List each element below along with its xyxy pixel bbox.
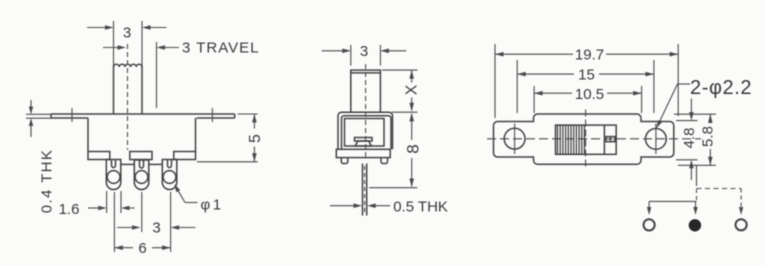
svg-text:2-φ2.2: 2-φ2.2 bbox=[690, 77, 752, 99]
flange mounting hole centerline ticks bbox=[71, 108, 73, 122]
vertical centerline (top view) bbox=[585, 110, 587, 170]
dimension 3 (knob width, front view) bbox=[87, 21, 167, 66]
knob (side view) bbox=[351, 70, 381, 112]
terminal 2 bbox=[134, 160, 149, 190]
dimension 10.5 (body length) bbox=[534, 86, 642, 113]
SCHEMATIC bbox=[644, 165, 747, 231]
svg-text:4.8: 4.8 bbox=[681, 128, 698, 149]
svg-text:5: 5 bbox=[247, 134, 264, 143]
svg-text:19.7: 19.7 bbox=[575, 47, 604, 64]
left terminal circle (open) bbox=[644, 219, 655, 230]
body top edge with flanges bbox=[51, 114, 235, 118]
dimension 0.4 THK bbox=[26, 100, 56, 213]
left mounting hole bbox=[504, 128, 525, 149]
right mounting hole bbox=[646, 129, 667, 150]
common pole wire (solid then dashed) bbox=[696, 165, 698, 200]
svg-text:0.5 THK: 0.5 THK bbox=[393, 199, 448, 216]
dashed branch wire to right terminal bbox=[697, 189, 744, 216]
dimension 4.8 bbox=[676, 99, 698, 181]
dimension 5 (body height) bbox=[197, 114, 264, 162]
dimension 3 (knob width, side view) bbox=[322, 43, 407, 66]
TOP VIEW bbox=[487, 44, 752, 180]
middle terminal circle (filled) bbox=[689, 219, 701, 231]
middle terminal wire with arrow bbox=[693, 201, 697, 215]
dimension X (knob height) bbox=[382, 70, 421, 111]
svg-text:1.6: 1.6 bbox=[59, 201, 80, 218]
label 2-phi2.2 with leader bbox=[656, 77, 752, 129]
horizontal centerline (top view) bbox=[487, 138, 701, 140]
solid branch wire to left terminal bbox=[647, 201, 697, 215]
dimension 1.6 (terminal width) bbox=[59, 191, 135, 218]
svg-text:X: X bbox=[404, 84, 421, 95]
svg-text:5.8: 5.8 bbox=[700, 126, 717, 147]
svg-text:15: 15 bbox=[578, 66, 595, 83]
dimension 6 (outer terminal span) bbox=[114, 240, 170, 257]
terminal 1 bbox=[106, 160, 121, 190]
leader phi-1 (terminal hole) bbox=[174, 184, 223, 214]
svg-text:3 TRAVEL: 3 TRAVEL bbox=[182, 40, 259, 57]
actuator rivet (mushroom) bbox=[355, 138, 373, 147]
dimension 0.5 THK (pin thickness) bbox=[330, 199, 448, 216]
dimension 3 TRAVEL bbox=[103, 40, 259, 109]
dimension 5.8 bbox=[674, 114, 717, 165]
mounting plate outline (top view) bbox=[494, 114, 674, 164]
bottom step boxes bbox=[88, 152, 196, 160]
dimension 15 (hole spacing) bbox=[517, 60, 654, 113]
knob (top view) bbox=[556, 125, 617, 154]
svg-text:3: 3 bbox=[123, 25, 131, 42]
side view centerline bbox=[365, 64, 367, 160]
svg-text:3: 3 bbox=[152, 220, 160, 237]
terminal center extension lines bbox=[114, 192, 170, 252]
svg-text:φ1: φ1 bbox=[201, 197, 224, 214]
base plate (side view) bbox=[336, 149, 390, 157]
bottom edge segments between terminals bbox=[121, 163, 163, 165]
svg-text:0.4 THK: 0.4 THK bbox=[39, 149, 56, 214]
body sides (front view) bbox=[88, 118, 196, 152]
right terminal circle (open) bbox=[736, 219, 747, 230]
terminal 3 bbox=[162, 160, 177, 190]
body (side view) bbox=[338, 112, 393, 149]
dimension 19.7 (overall length) bbox=[495, 44, 678, 118]
svg-text:3: 3 bbox=[360, 43, 368, 60]
knob centerline bbox=[127, 44, 129, 150]
right hole vertical centerline bbox=[655, 124, 657, 155]
terminal pin (side view) bbox=[363, 164, 367, 216]
dimension 3 (terminal pitch) bbox=[117, 220, 195, 237]
svg-text:10.5: 10.5 bbox=[575, 86, 604, 103]
svg-text:8: 8 bbox=[404, 144, 423, 153]
SIDE VIEW bbox=[322, 43, 448, 216]
left hole vertical centerline bbox=[514, 124, 516, 155]
svg-text:6: 6 bbox=[138, 240, 146, 257]
foot left bbox=[341, 158, 348, 164]
foot right bbox=[381, 158, 388, 164]
dimension 8 (body height side view) bbox=[369, 112, 422, 188]
FRONT VIEW bbox=[26, 21, 264, 257]
knob (front view, with break squiggle) bbox=[114, 64, 143, 114]
